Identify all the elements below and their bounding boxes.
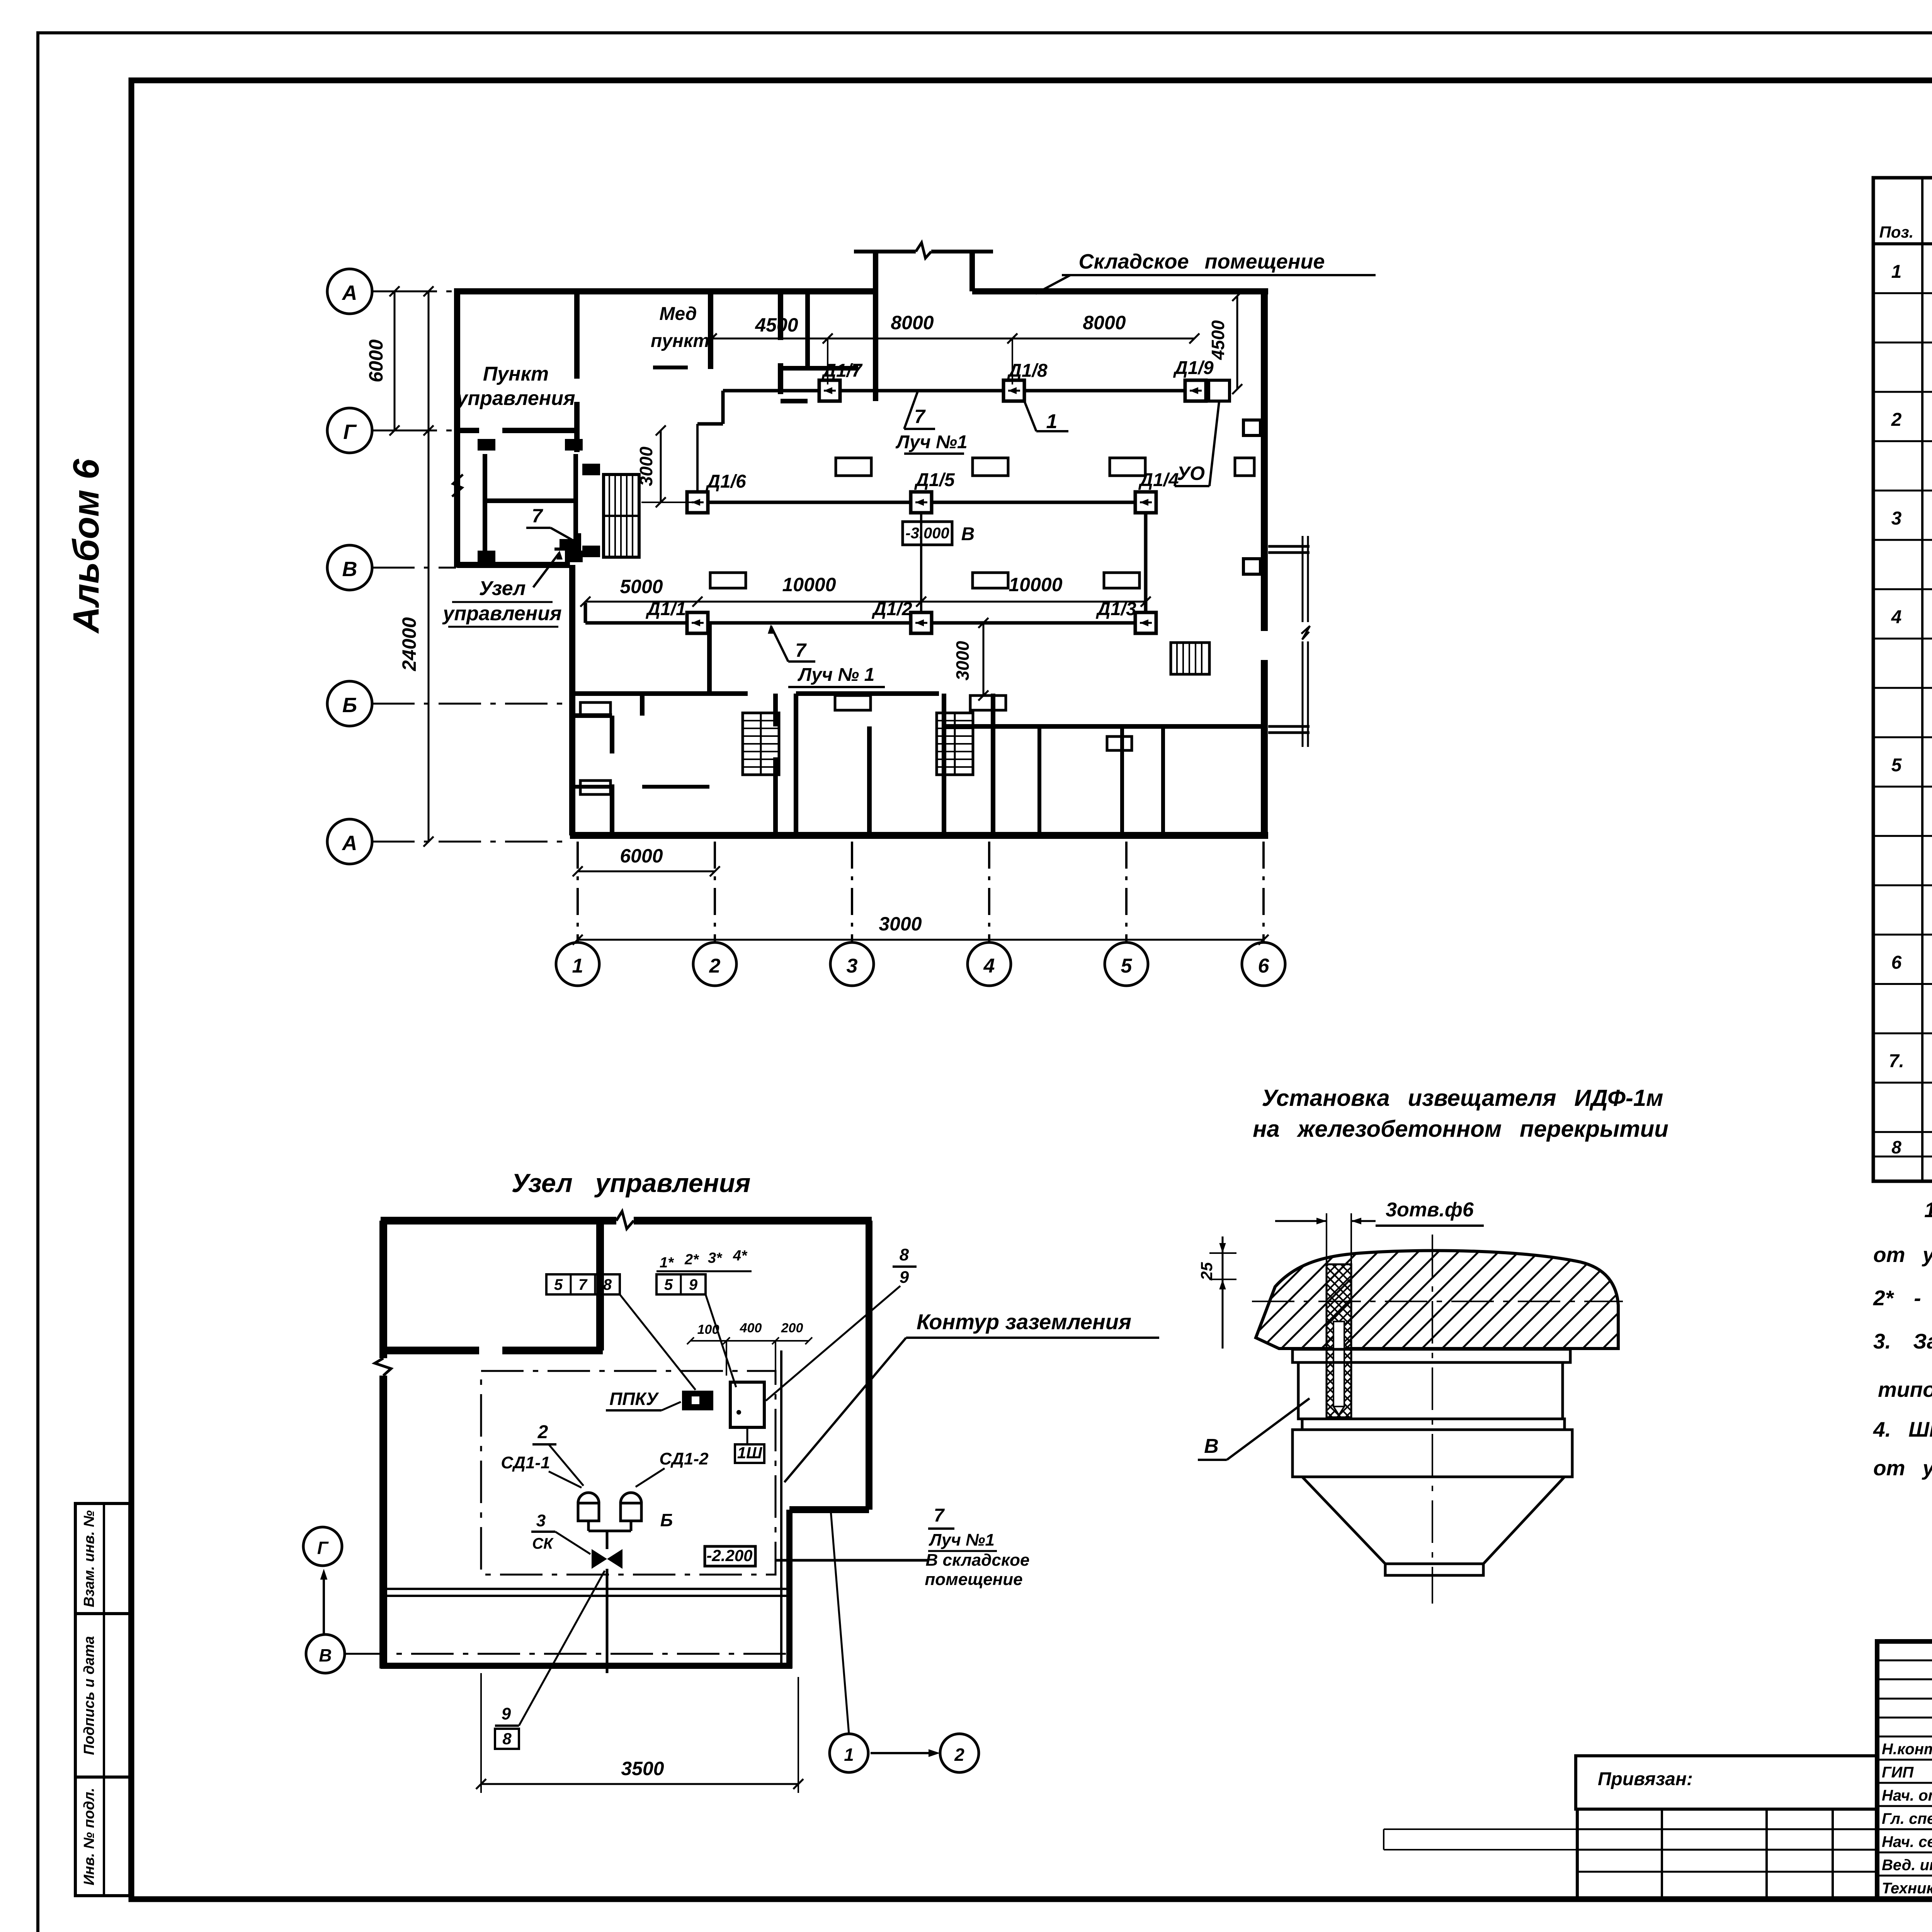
- wire loop 1: [723, 389, 1208, 393]
- dim 6000 left vertical: [365, 286, 400, 435]
- wire loop1 drop to loop2: [697, 391, 723, 492]
- small dims 100 400 200: [687, 1321, 812, 1376]
- svg-text:100: 100: [697, 1322, 719, 1337]
- ППКУ device: [682, 1391, 713, 1410]
- table content: [1889, 261, 1932, 1180]
- callout 8/9: [766, 1245, 917, 1401]
- svg-text:Поз.: Поз.: [1879, 223, 1914, 241]
- складское помещение label: [1036, 250, 1376, 294]
- УУ interior wall vertical: [596, 1221, 604, 1350]
- svg-text:СД1-1: СД1-1: [501, 1453, 550, 1472]
- title block outer: [1877, 1641, 1932, 1899]
- terminal box УО: [1209, 380, 1230, 401]
- detector Д1/6: [687, 471, 746, 513]
- svg-text:ГИП: ГИП: [1882, 1764, 1914, 1781]
- svg-text:Установка извещателя ИДФ-1м: Установка извещателя ИДФ-1м: [1262, 1085, 1663, 1111]
- svg-text:управления: управления: [442, 602, 561, 625]
- svg-text:6000: 6000: [365, 339, 387, 382]
- svg-text:Нач. сект.: Нач. сект.: [1882, 1833, 1932, 1850]
- svg-text:А: А: [342, 832, 357, 855]
- ппку location mark: [554, 533, 580, 553]
- УУ top wall: [381, 1211, 872, 1229]
- detector Д1/1: [645, 599, 708, 633]
- column axis lines bottom: [578, 842, 1264, 942]
- svg-text:4*: 4*: [733, 1248, 748, 1264]
- callout 7 (steel strip): [526, 505, 580, 548]
- callout луч №1 upper: [895, 391, 967, 454]
- svg-text:3500: 3500: [621, 1758, 664, 1779]
- svg-text:10000: 10000: [1009, 574, 1062, 595]
- cable riser boxes 5 7 8: [546, 1274, 696, 1390]
- vent rects row1: [836, 458, 1254, 476]
- entrance vestibule top: [854, 243, 993, 291]
- svg-text:1: 1: [1891, 262, 1902, 282]
- staircase hatch next to пункт управления: [582, 464, 639, 557]
- svg-text:3000: 3000: [879, 913, 922, 935]
- dim 4500 right vertical: [1208, 291, 1242, 394]
- annex bottom wall on axis В: [457, 562, 570, 568]
- svg-text:7: 7: [578, 1276, 588, 1293]
- svg-text:4: 4: [1891, 607, 1902, 628]
- wall on axis Г: [457, 428, 577, 433]
- left margin stamp boxes: [75, 1503, 130, 1896]
- svg-text:7.: 7.: [1889, 1051, 1904, 1071]
- пункт управления label: [455, 363, 575, 410]
- svg-text:типовому проекту 5. 407-11: типовому проекту 5. 407-11 лист 10.: [1878, 1378, 1932, 1401]
- svg-text:6: 6: [1258, 955, 1270, 977]
- svg-text:помещение: помещение: [925, 1570, 1022, 1589]
- svg-text:25: 25: [1197, 1262, 1216, 1281]
- узел управления label: [442, 550, 563, 627]
- svg-text:В: В: [319, 1645, 332, 1665]
- detector Д1/8: [1003, 361, 1048, 401]
- svg-text:7: 7: [934, 1505, 945, 1526]
- привязан box: [1576, 1756, 1877, 1809]
- svg-text:7: 7: [532, 505, 543, 527]
- svg-text:5: 5: [554, 1276, 563, 1293]
- column circle 5: [1105, 942, 1148, 986]
- specification table grid: [1873, 178, 1932, 1181]
- мед пункт walls: [653, 291, 876, 401]
- wire loop 2: [697, 501, 1146, 504]
- svg-text:Н.контр.: Н.контр.: [1882, 1741, 1932, 1758]
- СД1-1 label: [501, 1453, 582, 1488]
- svg-text:6000: 6000: [620, 845, 663, 867]
- svg-text:1Ш: 1Ш: [737, 1444, 762, 1462]
- building left wall upper (annex): [454, 291, 460, 568]
- svg-text:В: В: [1204, 1435, 1219, 1458]
- column circle 2: [693, 942, 736, 986]
- УУ lower corridor line: [383, 1589, 789, 1596]
- svg-text:Б: Б: [660, 1510, 673, 1530]
- svg-text:СК: СК: [532, 1535, 554, 1552]
- floor plan axis circle А bottom: [327, 819, 570, 864]
- мед пункт label: [651, 304, 709, 351]
- svg-text:Техник: Техник: [1882, 1880, 1932, 1897]
- 1Ш label: [735, 1427, 764, 1463]
- svg-text:Д1/5: Д1/5: [914, 470, 955, 490]
- floor plan axis circle А top: [327, 269, 395, 314]
- slab centerline horizontal: [1252, 1301, 1623, 1302]
- svg-text:ППКУ: ППКУ: [609, 1389, 659, 1409]
- svg-text:Нач. отд.: Нач. отд.: [1882, 1787, 1932, 1804]
- шкаф 1Ш box: [730, 1382, 764, 1427]
- svg-text:9: 9: [900, 1268, 909, 1287]
- level mark -3.000: [903, 522, 975, 545]
- title block left grid: [1877, 1641, 1932, 1899]
- right wall pilasters: [1243, 420, 1260, 574]
- УУ left wall: [375, 1221, 391, 1668]
- svg-text:-2.200: -2.200: [706, 1546, 752, 1565]
- svg-text:Инв. № подл.: Инв. № подл.: [81, 1788, 97, 1886]
- svg-text:1: 1: [572, 955, 583, 977]
- привязан left extension rows: [1384, 1829, 1577, 1850]
- svg-text:200: 200: [781, 1321, 803, 1335]
- dim chain 4500-8000-8000 top: [707, 312, 1199, 384]
- svg-text:24000: 24000: [398, 617, 420, 671]
- wall break mark left wall: [452, 474, 463, 497]
- svg-text:5000: 5000: [620, 576, 663, 597]
- dim 3отв.ф6: [1275, 1199, 1484, 1321]
- УУ column circle 2: [940, 1734, 979, 1772]
- svg-text:управления: управления: [455, 387, 575, 410]
- svg-text:А: А: [342, 281, 357, 304]
- svg-text:4. Шкаф 1Ш, ППКУ установить: 4. Шкаф 1Ш, ППКУ установить на отм + 1.5…: [1873, 1417, 1932, 1441]
- dim 3000 vertical left of loop2: [636, 425, 697, 507]
- column circle 4: [968, 942, 1011, 986]
- wire loop 3: [585, 603, 1146, 623]
- svg-text:4500: 4500: [755, 314, 798, 336]
- контур заземления label: [781, 1310, 1159, 1482]
- ППКУ label: [606, 1389, 681, 1410]
- floor plan axis circle В: [327, 545, 456, 590]
- title block signature labels: [1882, 1740, 1932, 1897]
- concrete slab with hatching: [1217, 1248, 1743, 1352]
- detector Д1/4: [1135, 470, 1179, 513]
- svg-text:СД1-2: СД1-2: [659, 1449, 709, 1468]
- svg-text:от уровня пола.: от уровня пола.: [1873, 1456, 1932, 1480]
- СК bowtie symbol: [592, 1549, 622, 1673]
- пункт управления right wall: [574, 291, 580, 452]
- callout луч №1 lower: [768, 624, 885, 687]
- building bottom wall: [570, 832, 1268, 839]
- callout 2 (СД): [532, 1422, 583, 1486]
- svg-text:1*: 1*: [660, 1255, 674, 1271]
- svg-text:Узел управления: Узел управления: [512, 1168, 751, 1198]
- svg-text:9: 9: [689, 1276, 698, 1293]
- svg-text:1. Соединительную коробку СК: 1. Соединительную коробку СК установить …: [1924, 1198, 1932, 1222]
- svg-text:Д1/9: Д1/9: [1173, 358, 1214, 378]
- building left wall lower: [569, 565, 575, 835]
- svg-text:В: В: [961, 524, 975, 544]
- notes text: [1873, 1198, 1932, 1480]
- pressure switch СД1-2 symbol: [621, 1493, 641, 1531]
- hatched block bottom right: [1171, 643, 1209, 674]
- УУ axis circle В: [306, 1634, 792, 1673]
- vent rects row2: [710, 573, 1139, 588]
- svg-text:Луч № 1: Луч № 1: [798, 665, 875, 685]
- svg-text:2*: 2*: [684, 1252, 699, 1268]
- svg-text:4: 4: [983, 955, 995, 977]
- detector mounting plate: [1293, 1349, 1570, 1362]
- svg-text:2* - кабели, выполняемые при: 2* - кабели, выполняемые при привязке.: [1873, 1286, 1932, 1310]
- anchor dowel crosshatched: [1327, 1264, 1351, 1417]
- detector Д1/5: [911, 470, 955, 513]
- callout УО: [1175, 402, 1219, 486]
- svg-text:УО: УО: [1177, 463, 1205, 484]
- wire Д1/5 to Д1/2: [920, 502, 922, 623]
- svg-text:3*: 3*: [708, 1250, 723, 1266]
- svg-text:Пункт: Пункт: [483, 363, 549, 385]
- svg-text:-3.000: -3.000: [905, 525, 949, 542]
- cable riser boxes 1 2 3 4: [656, 1248, 752, 1387]
- svg-text:Складское помещение: Складское помещение: [1079, 250, 1325, 273]
- right exterior platform: [1268, 536, 1310, 747]
- detector ring: [1302, 1419, 1565, 1430]
- pipe manifold: [588, 1531, 631, 1549]
- dim 6000 bottom: [573, 845, 720, 876]
- svg-text:3: 3: [1891, 509, 1902, 529]
- detector Д1/7: [819, 361, 863, 401]
- detector Д1/2: [871, 599, 932, 633]
- detector body band: [1293, 1430, 1572, 1477]
- svg-text:1: 1: [844, 1745, 854, 1765]
- wire Д1/4 to Д1/3: [1144, 502, 1148, 623]
- svg-text:Привязан:: Привязан:: [1598, 1769, 1693, 1789]
- detector centerline: [1432, 1235, 1433, 1604]
- corridor walls below Г (I-shape): [478, 439, 583, 562]
- callout 3 СК: [531, 1511, 590, 1554]
- svg-text:8: 8: [502, 1730, 512, 1748]
- узел управления detail title: [512, 1168, 751, 1198]
- svg-text:8: 8: [1891, 1137, 1901, 1157]
- svg-text:3000: 3000: [952, 641, 973, 680]
- svg-text:Альбом 6: Альбом 6: [66, 459, 107, 634]
- svg-text:2: 2: [709, 955, 721, 977]
- УУ arrow between circles: [871, 1749, 940, 1757]
- detector Д1/3: [1095, 599, 1156, 633]
- svg-text:Мед: Мед: [660, 304, 697, 324]
- dim 3000 vertical below Д1/2: [952, 618, 988, 701]
- svg-text:Вед. инж.: Вед. инж.: [1882, 1857, 1932, 1874]
- building right wall: [1261, 291, 1268, 837]
- detector bottom cap: [1385, 1564, 1483, 1575]
- svg-text:8000: 8000: [891, 312, 934, 333]
- УУ axis circle Г: [303, 1527, 342, 1566]
- column circle 6: [1242, 942, 1285, 986]
- detector base cylinder: [1298, 1362, 1563, 1419]
- svg-text:В: В: [342, 558, 357, 581]
- svg-text:3: 3: [536, 1511, 546, 1530]
- dim chain 5000-10000-10000: [580, 574, 1151, 607]
- УУ wall stub right: [789, 1506, 869, 1513]
- detector cone: [1302, 1477, 1565, 1564]
- svg-text:1: 1: [1046, 410, 1058, 433]
- svg-text:2: 2: [1891, 410, 1902, 430]
- detector Д1/9: [1173, 358, 1214, 401]
- label В detail: [1198, 1398, 1310, 1460]
- floor plan axis circle Б: [327, 681, 570, 726]
- svg-text:5: 5: [1121, 955, 1133, 977]
- table headers: [1879, 194, 1932, 241]
- svg-text:3: 3: [847, 955, 858, 977]
- album label: [66, 459, 107, 634]
- svg-text:Гл. спец.: Гл. спец.: [1882, 1810, 1932, 1827]
- svg-text:на железобетонном перекрытии: на железобетонном перекрытии: [1253, 1116, 1668, 1142]
- axis line Г dashdot: [395, 430, 456, 432]
- axis line А top dashdot: [395, 291, 877, 293]
- svg-text:Подпись и дата: Подпись и дата: [81, 1636, 97, 1755]
- building top wall: [454, 288, 1268, 294]
- УУ lower right wall: [786, 1510, 793, 1668]
- svg-text:6: 6: [1891, 952, 1902, 973]
- СД1-2 label: [636, 1449, 709, 1487]
- grounding contour dash-dot: [481, 1371, 776, 1575]
- svg-text:5: 5: [1891, 755, 1902, 776]
- interior walls bottom band: [569, 623, 1264, 835]
- svg-text:3отв.ф6: 3отв.ф6: [1386, 1199, 1474, 1221]
- УУ interior wall horizontal: [383, 1347, 603, 1354]
- svg-text:400: 400: [740, 1321, 762, 1335]
- staircase symbol right: [937, 713, 973, 775]
- svg-text:Г: Г: [317, 1538, 329, 1558]
- Б label УУ: [657, 1509, 673, 1530]
- svg-text:7: 7: [795, 639, 807, 661]
- svg-text:Г: Г: [343, 420, 357, 444]
- dim 24000 left vertical: [398, 286, 434, 847]
- floor plan axis circle Г: [327, 408, 395, 453]
- svg-text:Контур заземления: Контур заземления: [917, 1310, 1131, 1334]
- svg-text:Луч №1: Луч №1: [895, 432, 967, 452]
- svg-text:пункт: пункт: [651, 331, 709, 351]
- УУ right wall: [866, 1221, 872, 1510]
- привязан sub table: [1577, 1809, 1877, 1899]
- svg-text:3000: 3000: [636, 446, 656, 486]
- svg-text:Д1/6: Д1/6: [705, 471, 746, 492]
- svg-text:8: 8: [900, 1245, 909, 1264]
- dim 30000 bottom: [573, 913, 1269, 945]
- svg-text:от уровня пола.: от уровня пола.: [1873, 1243, 1932, 1267]
- column circle 3: [830, 942, 874, 986]
- svg-text:2: 2: [954, 1745, 964, 1765]
- УУ column circle 1: [830, 1511, 868, 1772]
- vent rects row3: [835, 696, 1006, 710]
- УУ callout 9/8 bottom: [495, 1571, 605, 1749]
- svg-text:4500: 4500: [1208, 320, 1228, 360]
- УУ dim 3500: [476, 1673, 803, 1793]
- svg-text:В складское: В складское: [925, 1551, 1029, 1570]
- column circle 1: [556, 942, 599, 986]
- УУ bottom wall: [381, 1663, 792, 1669]
- svg-text:Б: Б: [342, 694, 357, 717]
- УУ axis arrow В to Г: [320, 1569, 328, 1634]
- svg-text:7: 7: [914, 406, 926, 427]
- level mark -2.200: [705, 1546, 755, 1566]
- svg-text:2: 2: [537, 1422, 548, 1442]
- svg-text:Луч №1: Луч №1: [929, 1531, 995, 1549]
- callout 1 (Д1/8): [1024, 401, 1068, 433]
- svg-text:8: 8: [603, 1276, 612, 1293]
- svg-text:Узел: Узел: [479, 577, 526, 600]
- callout 7 луч №1 в складское помещение: [776, 1505, 1030, 1589]
- идф detail title: [1253, 1085, 1668, 1142]
- svg-text:3. Заземление эл. аппаратов: 3. Заземление эл. аппаратов выполнить по: [1873, 1329, 1932, 1353]
- svg-text:Взам. инв. №: Взам. инв. №: [81, 1510, 97, 1607]
- УУ inner wall right thin: [780, 1350, 782, 1666]
- pressure switch СД1-1 symbol: [578, 1493, 599, 1531]
- staircase symbol left: [743, 713, 779, 775]
- svg-text:8000: 8000: [1083, 312, 1126, 333]
- dim 25 vertical: [1197, 1236, 1298, 1349]
- svg-text:5: 5: [664, 1276, 673, 1293]
- svg-text:9: 9: [502, 1704, 511, 1723]
- svg-text:10000: 10000: [782, 574, 836, 595]
